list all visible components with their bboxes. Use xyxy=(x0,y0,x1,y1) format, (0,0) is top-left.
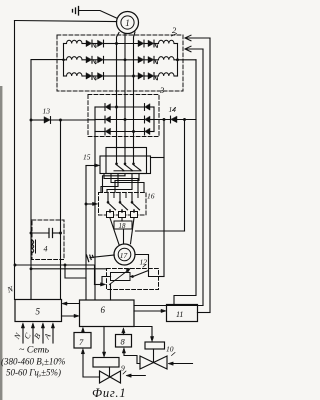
ground (machine 17) xyxy=(87,253,115,261)
arrow: unit 6 to unit 5 xyxy=(62,302,80,305)
arrow: mains phase A into unit 5 xyxy=(51,323,54,343)
wire: transposition weave d xyxy=(103,174,126,193)
box2 row 1: diodes and winding (right) xyxy=(138,40,178,47)
wire: mid rail (capacitor node) down to control box 5 xyxy=(60,120,62,300)
arrow: into unit 12 lower xyxy=(95,283,106,286)
unit 11 (box) xyxy=(167,305,198,322)
node: box3 row1 / phase a xyxy=(115,106,118,109)
wire: control rail to switch units xyxy=(85,166,87,301)
box3 row 1: diode pair xyxy=(95,104,154,111)
wire: branch link down xyxy=(65,265,86,278)
wire: regulator 6 to actuator 10 xyxy=(134,327,154,342)
wire: right rail R2 (feedback to unit 2) xyxy=(202,49,204,306)
wire: row2 to right rail R1 xyxy=(178,59,197,61)
box3 row 3: diode pair xyxy=(95,128,154,135)
bus: box2 right group xyxy=(177,44,179,77)
diode 14 with wire from box3 to right rails xyxy=(154,116,196,123)
mains unit 5 (box) xyxy=(15,300,62,322)
label 10 xyxy=(166,345,175,356)
terminal pad 1 of unit 16 xyxy=(107,212,114,218)
box2 row 2: wire across phase lines xyxy=(117,59,139,61)
wire: rail164 into unit 12 xyxy=(159,276,165,278)
synchronous machine 1 xyxy=(117,12,139,34)
valve 10 (bowtie) xyxy=(140,349,167,369)
arrow: feedback input to unit 2 (lower) xyxy=(185,46,203,52)
node: capacitor wire junction xyxy=(59,232,62,235)
svg-text:5: 5 xyxy=(36,307,41,317)
switch unit 16 (dashed box) xyxy=(99,193,147,216)
bus: box2 left group xyxy=(63,44,65,77)
unit 8 (box) xyxy=(116,335,132,348)
wire: rail 164 down xyxy=(163,120,165,277)
arrow: flow into valve 9 xyxy=(126,374,145,377)
arrow: regulator 6 down to actuator 9 xyxy=(102,327,105,358)
svg-text:14: 14 xyxy=(169,105,177,114)
svg-text:18: 18 xyxy=(119,222,127,230)
node: phase c / row 3 xyxy=(132,75,135,78)
wire: valve 9 to unit 7 riser xyxy=(81,349,99,377)
box2 row 3: winding and diodes (left) xyxy=(64,73,117,80)
rotating rectifier exciter 2 (dashed box) xyxy=(57,35,183,91)
node: diode14 left junction xyxy=(163,118,166,121)
node: branch link xyxy=(64,264,67,267)
box2 row 1: wire across phase lines xyxy=(117,43,139,45)
wire: rheostat left lead xyxy=(102,277,111,285)
wire: box 18 to machine 17 xyxy=(123,229,125,244)
node: mid rail / diode13 wire xyxy=(59,119,62,122)
node: left rail / diode13 branch xyxy=(30,119,33,122)
svg-text:4: 4 xyxy=(44,245,48,254)
wire: right pad branch to rail 184 xyxy=(136,230,185,232)
switch unit 15 (back frame) xyxy=(106,148,147,174)
label 9 xyxy=(121,364,126,375)
arrow: unit 7 to regulator 6 xyxy=(81,328,84,333)
node: right bus row2 junction xyxy=(176,58,179,61)
wire: second left rail with corner xyxy=(31,60,64,300)
arrow: control into switch unit 16 xyxy=(86,202,98,205)
svg-text:(380-460 В,±10%: (380-460 В,±10% xyxy=(1,357,65,367)
node: second link / rail31 xyxy=(30,267,33,270)
arrow: feedback input to unit 2 (upper) xyxy=(185,35,210,41)
terminal pad 2 of unit 16 xyxy=(119,212,126,218)
switch pole 3 in unit 15 xyxy=(131,149,141,171)
label 12 xyxy=(140,258,148,268)
wire: box3 left bus down to regulator 6 xyxy=(94,132,96,301)
svg-text:16: 16 xyxy=(147,192,155,201)
regulator 6 (box) xyxy=(80,300,135,327)
arrow: flow into valve 10 xyxy=(168,362,192,365)
ground (machine frame, top) xyxy=(73,7,117,19)
wire: right pad to machine 17 xyxy=(131,218,135,244)
label 2 xyxy=(172,25,178,36)
box2 row 1: winding and diodes (left) xyxy=(64,40,117,47)
wire: transposition weave a xyxy=(104,174,138,193)
svg-text:3: 3 xyxy=(159,85,164,95)
wire: rail 184 down xyxy=(184,120,186,232)
wire: right rail R3 (feedback to unit 2) xyxy=(198,38,211,313)
wire: machine to left rail xyxy=(15,21,117,22)
wire: unit 15 to rail 164 xyxy=(151,157,165,159)
switch pole 1 in unit 16 xyxy=(107,193,116,212)
brush unit 18 (box) xyxy=(114,221,132,230)
wire: mid pad into box 18 xyxy=(121,218,123,221)
label: mains network text xyxy=(1,345,65,378)
terminal pad 3 of unit 16 xyxy=(131,212,138,218)
arrow: unit 6 to unit 11 xyxy=(134,309,166,312)
arrow: unit 8 to regulator 6 xyxy=(122,328,125,335)
filter unit 4 (dashed box) xyxy=(32,220,64,260)
svg-text:13: 13 xyxy=(43,107,51,116)
field rheostat unit 12 (dashed box) xyxy=(107,269,159,290)
node: left bus row2 xyxy=(62,59,65,62)
wire: second horizontal link xyxy=(31,268,107,270)
arrow: control into switch unit 15 xyxy=(86,164,100,167)
actuator of valve 9 (box) xyxy=(93,358,119,368)
node: control rail branch xyxy=(85,203,88,206)
wire: regulator 6 to rail R2 xyxy=(134,305,203,307)
svg-text:15: 15 xyxy=(83,153,91,162)
node: capacitor to left rail xyxy=(30,232,33,235)
box2 row 2: winding and diodes (left) xyxy=(64,56,117,63)
arrow: unit 5 to unit 6 xyxy=(62,314,80,317)
wire: valve 10 pipe to unit 8 (arrow up) xyxy=(122,348,140,364)
label 14 xyxy=(169,105,177,114)
wire: transposition weave c xyxy=(101,174,118,193)
rectifier unit 3 (dashed box) xyxy=(88,95,159,137)
wire: unit12 bottom to regulator 6 xyxy=(110,284,112,300)
switch unit 15 (front frame) xyxy=(100,156,151,174)
switch pole 2 in unit 16 xyxy=(119,193,128,212)
wire: machine 17 to switch 12 xyxy=(135,255,149,272)
arrow: mains phase B into unit 5 xyxy=(41,323,44,343)
capacitor in unit 4 xyxy=(31,229,61,238)
node: box3 row3 / phase c xyxy=(132,130,135,133)
box2 row 2: diodes and winding (right) xyxy=(138,56,178,63)
svg-text:1: 1 xyxy=(125,18,130,28)
switch contact in unit 12 xyxy=(131,271,158,278)
wire: right rail R1 (bus row2 feedback) xyxy=(174,60,196,305)
svg-text:9: 9 xyxy=(121,364,125,373)
box2 row 3: diodes and winding (right) xyxy=(138,73,178,80)
diode 13 with wire from left rail xyxy=(31,117,95,124)
node: left rail / link xyxy=(14,264,17,267)
wire: horizontal link to rheostat arrow xyxy=(15,265,95,285)
node: phase a / row 1 xyxy=(115,42,118,45)
unit 7 (box) xyxy=(74,333,91,349)
wire: phase line a xyxy=(117,33,120,149)
wire: left vertical rail xyxy=(14,21,16,300)
rheostat (resistor with arrow) xyxy=(107,268,132,284)
box3 row 2: diode pair xyxy=(95,116,154,123)
switch pole 2 in unit 15 xyxy=(123,149,133,171)
svg-text:~ Сеть: ~ Сеть xyxy=(19,345,50,356)
wire: transposition weave b xyxy=(111,174,144,193)
bus: box3 left xyxy=(94,107,96,132)
arrow: mains phase C into unit 5 xyxy=(31,323,34,343)
svg-text:12: 12 xyxy=(140,258,148,267)
svg-text:Фиг.1: Фиг.1 xyxy=(92,386,126,400)
wire: phase line b xyxy=(124,34,126,149)
pilot machine 17 xyxy=(114,244,135,265)
wire: left pad to machine 17 xyxy=(110,218,119,245)
node: diode14 right junction xyxy=(183,118,186,121)
box2 row 3: wire across phase lines xyxy=(117,75,139,77)
bus: box3 right xyxy=(153,107,155,132)
switch pole 1 in unit 15 xyxy=(114,149,124,171)
svg-text:50-60 Гц,±5%): 50-60 Гц,±5%) xyxy=(6,368,61,378)
wire: transposition weave f xyxy=(115,174,139,193)
scan edge shading xyxy=(0,86,2,400)
svg-text:6: 6 xyxy=(101,305,106,315)
wire: transposition weave e xyxy=(107,174,132,193)
arrow: mains phase N into unit 5 xyxy=(21,323,24,343)
inductor in unit 4 xyxy=(31,240,36,253)
actuator of valve 10 (box) xyxy=(145,342,165,349)
node: box3 row2 / phase b xyxy=(124,118,127,121)
valve 9 (bowtie) xyxy=(100,367,121,383)
node: phase b / row 2 xyxy=(124,58,127,61)
svg-text:11: 11 xyxy=(176,310,183,319)
wire: phase line c xyxy=(134,32,136,149)
svg-text:17: 17 xyxy=(120,251,128,260)
wire: unit 11 right to rail R3 xyxy=(198,312,211,314)
svg-text:10: 10 xyxy=(166,345,174,354)
switch pole 3 in unit 16 xyxy=(131,193,140,212)
